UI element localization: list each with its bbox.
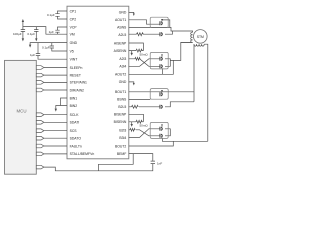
resistor R3 gate A2	[135, 57, 140, 60]
wire MCU ground bus	[44, 164, 153, 171]
wire AISENN	[129, 50, 144, 52]
supply rail VM	[23, 22, 67, 35]
resistor R4	[132, 105, 139, 108]
half-bridge module A2 box	[150, 52, 168, 69]
ground arrow C2	[35, 38, 37, 41]
svg-text:GND: GND	[70, 41, 78, 45]
svg-text:BIN2: BIN2	[70, 104, 78, 108]
MCU pin header STALL/BEMFVn	[36, 152, 44, 156]
svg-text:AISENN: AISENN	[114, 49, 127, 53]
svg-text:SLEEPn: SLEEPn	[70, 66, 83, 70]
wire AISENN ground stub	[131, 51, 133, 53]
wire CP1	[58, 11, 68, 14]
svg-text:STALL/BEMFVn: STALL/BEMFVn	[70, 152, 95, 156]
svg-text:ASNS: ASNS	[117, 26, 127, 30]
wire B2I3 cross	[129, 130, 160, 136]
svg-text:V5: V5	[70, 49, 74, 53]
transistor Q1	[160, 19, 163, 25]
svg-text:SCLK: SCLK	[70, 113, 80, 117]
capacitor C2 0.1uF bulk	[34, 27, 38, 39]
wire ASNS phase A1 to motor	[129, 27, 193, 32]
svg-text:0.1µF: 0.1µF	[47, 13, 55, 17]
wire BIN1 tie	[61, 98, 68, 106]
MCU pin header STEP/AIN1	[36, 81, 44, 85]
capacitor C5 0.1uF V5	[50, 46, 54, 48]
capacitor C4 1uF VCP	[55, 30, 59, 32]
svg-text:SDATI: SDATI	[70, 121, 80, 125]
transistor Q6	[160, 105, 163, 109]
transistor Q8	[160, 134, 163, 138]
wire BEMF branch to MCU bus	[99, 154, 134, 171]
svg-text:AISENP: AISENP	[114, 41, 127, 45]
svg-text:1µF: 1µF	[30, 53, 35, 57]
MCU pin header SLEEPn	[36, 66, 44, 70]
wire BSNS	[129, 98, 150, 100]
capacitor C6 1uF VINT	[36, 54, 40, 56]
svg-text:RESET: RESET	[70, 73, 81, 77]
wire VINT	[38, 43, 67, 60]
wire B2L5	[129, 106, 160, 108]
svg-text:SDATO: SDATO	[70, 137, 82, 141]
svg-text:MCU: MCU	[17, 109, 27, 114]
svg-text:AOUT1: AOUT1	[115, 18, 126, 22]
wire BOUT2	[129, 141, 174, 146]
half-bridge module B2 box	[150, 122, 168, 138]
svg-text:1nF: 1nF	[157, 162, 162, 166]
MCU pin header FAULTn	[36, 144, 44, 148]
wire Q2 output loop	[165, 31, 173, 34]
svg-text:50mΩ: 50mΩ	[140, 124, 149, 128]
half-bridge module A1 box	[150, 17, 168, 27]
wire SDATO	[44, 137, 67, 139]
svg-text:B2L5: B2L5	[118, 105, 126, 109]
MCU pin header GND	[36, 165, 44, 169]
wire RESET	[44, 74, 67, 76]
MCU pin header SDATI	[36, 121, 44, 125]
svg-text:VINT: VINT	[70, 58, 78, 62]
ground arrow BIN1/BIN2	[55, 109, 57, 112]
wire Q6 output loop	[165, 102, 194, 107]
svg-text:A2L5: A2L5	[118, 33, 126, 37]
wire A2L5	[129, 33, 160, 35]
motor winding B coil	[194, 44, 204, 46]
svg-text:STEP/AIN1: STEP/AIN1	[70, 81, 87, 85]
MCU pin header SCLK	[36, 113, 44, 117]
wire bridge B2 output loop	[162, 129, 207, 142]
svg-text:0.1µF: 0.1µF	[42, 46, 50, 50]
capacitor C7 1nF BEMF	[151, 161, 155, 164]
wire BISENN	[129, 121, 144, 123]
transistor Q3	[160, 55, 163, 61]
svg-text:FAULTn: FAULTn	[70, 144, 82, 148]
wire winding B right node	[204, 44, 208, 141]
wire V5	[52, 43, 67, 51]
capacitor C1 100uF bulk	[21, 27, 25, 39]
svg-text:GND: GND	[119, 80, 127, 84]
wire GND right stub 2	[129, 82, 134, 83]
transistor Q4	[160, 64, 163, 68]
svg-text:BISENP: BISENP	[114, 113, 127, 117]
svg-text:A2I3: A2I3	[119, 57, 126, 61]
wire BISENP loop	[129, 114, 144, 122]
ground arrow C1	[22, 38, 24, 41]
supply arrow VM	[22, 19, 24, 22]
svg-text:BSNS: BSNS	[117, 98, 127, 102]
svg-text:100µF: 100µF	[13, 32, 22, 36]
ground arrow shunt A	[131, 53, 133, 56]
wire AOUT2	[129, 60, 174, 74]
wire BIN2 tie	[56, 106, 67, 109]
svg-text:SCS: SCS	[70, 129, 78, 133]
wire STALL/BEMFVn	[44, 153, 67, 155]
MCU U2	[5, 60, 37, 174]
motor driver U1	[67, 6, 129, 159]
wire GND row	[30, 43, 67, 45]
capacitor C3 0.1uF flying	[55, 14, 59, 17]
svg-text:A3I4: A3I4	[119, 65, 126, 69]
svg-text:DIR/AIN2: DIR/AIN2	[70, 88, 84, 92]
resistor R6 gate B2	[130, 128, 135, 131]
ground arrow GND row	[29, 45, 31, 48]
MCU pin header SDATO	[36, 136, 44, 140]
transistor Q7	[160, 125, 163, 131]
svg-text:VM: VM	[70, 33, 75, 37]
wire SCLK	[44, 114, 67, 116]
half-bridge module B1 box	[150, 89, 168, 100]
transistor Q5	[160, 90, 163, 96]
wire FAULTn	[44, 145, 67, 147]
ground arrow shunt B	[131, 124, 133, 127]
wire DIR/AIN2	[44, 89, 67, 91]
wire BISENN ground stub	[131, 122, 133, 124]
wire BEMF to C7	[129, 154, 153, 162]
wire VCP	[58, 27, 68, 34]
resistor R2 50mOhm shunt A	[136, 49, 142, 52]
resistor R1	[137, 33, 144, 36]
wire A3I4 cross	[129, 59, 160, 67]
svg-text:0.1µF: 0.1µF	[27, 32, 35, 36]
wire B3I4 cross	[129, 129, 160, 138]
MCU pin header RESET	[36, 73, 44, 77]
svg-text:BOUT1: BOUT1	[115, 90, 126, 94]
wire bridge A2 output loop	[165, 42, 193, 66]
svg-text:AOUT2: AOUT2	[115, 73, 126, 77]
svg-text:GND: GND	[119, 11, 127, 15]
wire AISENP loop	[129, 43, 144, 51]
wire CP2	[58, 16, 68, 19]
svg-text:CP2: CP2	[70, 17, 77, 21]
svg-text:STM: STM	[197, 35, 204, 39]
wire GND right stub	[129, 12, 134, 13]
svg-text:1µF: 1µF	[49, 30, 54, 34]
svg-text:VCP: VCP	[70, 25, 78, 29]
svg-text:B2I3: B2I3	[119, 128, 126, 132]
ground arrow GND right mid	[133, 83, 135, 86]
svg-text:50mΩ: 50mΩ	[140, 52, 149, 56]
MCU pin header SCS	[36, 129, 44, 133]
svg-text:BOUT2: BOUT2	[115, 144, 126, 148]
wire SLEEPn	[44, 67, 67, 69]
motor winding A coil	[181, 32, 193, 42]
resistor R5 50mOhm shunt B	[136, 120, 142, 123]
stepper motor M1 body	[194, 30, 208, 44]
wire A2I3 cross	[129, 59, 160, 67]
wire STEP/AIN1	[44, 81, 67, 83]
transistor Q2	[160, 32, 163, 36]
svg-text:BIN1: BIN1	[70, 96, 78, 100]
svg-text:BEMF: BEMF	[117, 152, 126, 156]
wire AOUT1 to Q1	[129, 20, 170, 28]
wire SDATI	[44, 121, 67, 123]
svg-text:CP1: CP1	[70, 9, 77, 13]
MCU pin header DIR/AIN2	[36, 88, 44, 92]
svg-text:BISENN: BISENN	[114, 120, 127, 124]
wire BOUT1 phase B1 to motor	[129, 91, 194, 93]
ground arrow GND right top	[133, 14, 135, 17]
svg-text:B3I4: B3I4	[119, 136, 126, 140]
wire winding B left node	[193, 44, 195, 102]
wire SCS	[44, 130, 67, 132]
